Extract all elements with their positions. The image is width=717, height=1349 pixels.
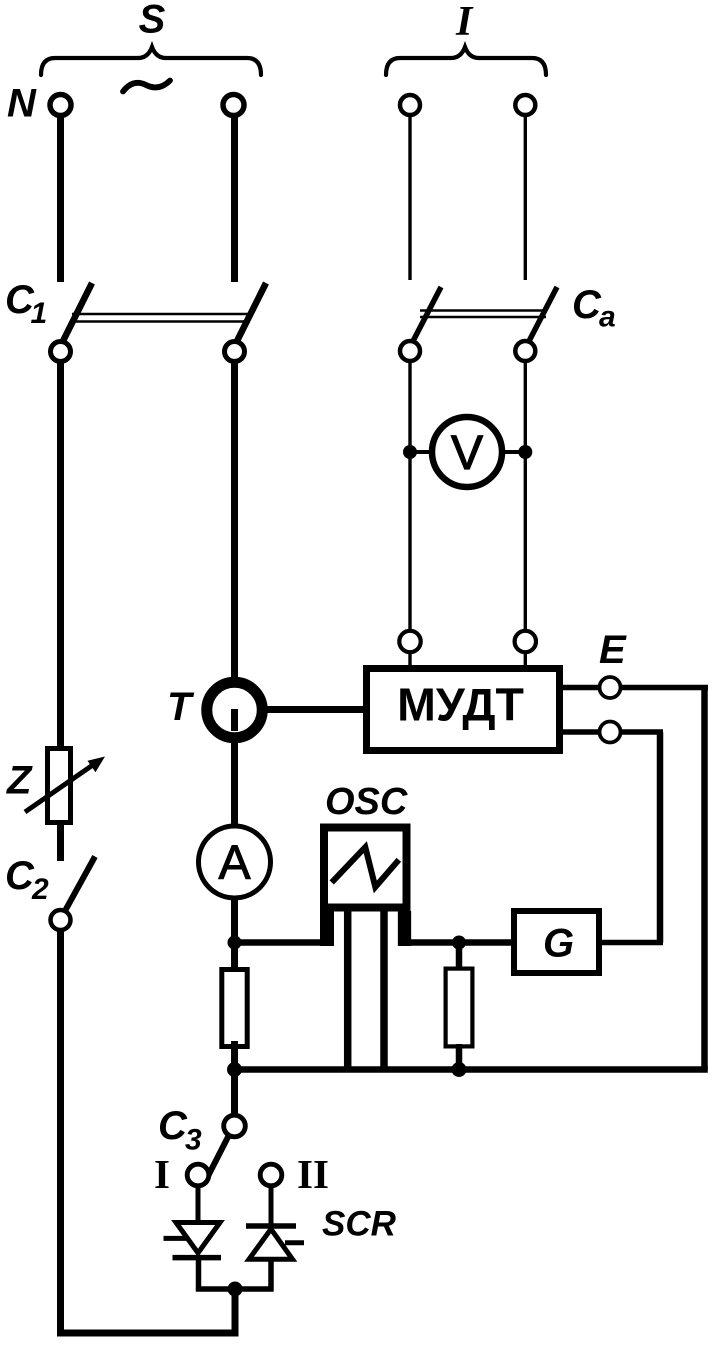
switch Ca right contact	[515, 341, 535, 361]
ammeter A	[199, 826, 271, 898]
svg-text:C: C	[572, 283, 602, 327]
brace I	[386, 47, 546, 75]
transformer T	[207, 682, 263, 738]
svg-text:2: 2	[31, 873, 49, 906]
wire bottom horizontal	[57, 1330, 238, 1337]
OSC pin1	[320, 911, 334, 946]
node R2 top	[452, 936, 466, 950]
svg-text:V: V	[451, 427, 483, 480]
wire OSC pin4 to G	[404, 939, 514, 946]
terminal S-left	[50, 95, 71, 116]
OSC pin4	[398, 911, 411, 946]
arrow through Z	[25, 764, 95, 813]
wire Z to C2	[57, 824, 64, 861]
terminal I-left	[400, 95, 420, 115]
wire G right	[602, 940, 663, 946]
wire I to SCR1	[196, 1185, 201, 1225]
wire C1-left to Z	[57, 361, 64, 748]
switch C3 contact	[224, 1115, 246, 1137]
resistor R2	[446, 969, 473, 1047]
block G	[514, 911, 599, 973]
wire SCR bottom connector	[196, 1286, 274, 1292]
svg-text:I: I	[455, 0, 474, 45]
svg-text:C: C	[5, 854, 35, 898]
svg-text:3: 3	[185, 1124, 202, 1157]
svg-text:1: 1	[31, 297, 48, 330]
terminal E2	[600, 722, 621, 743]
svg-text:OSC: OSC	[325, 781, 408, 823]
wire II to SCR2	[269, 1185, 274, 1228]
svg-text:G: G	[543, 922, 574, 966]
wire phase to C1	[231, 116, 238, 282]
thyristor SCR2	[246, 1223, 296, 1229]
wire MUDT to E1	[561, 685, 600, 691]
svg-text:II: II	[297, 1151, 329, 1197]
switch Ca linkage	[420, 309, 546, 312]
svg-text:I: I	[154, 1151, 170, 1197]
wire R2 bottom	[456, 1044, 463, 1070]
brace S	[41, 47, 261, 75]
wire R1 to C3	[231, 1041, 238, 1116]
switch Ca left contact	[400, 341, 420, 361]
wire Ca-right to MUDT	[524, 360, 527, 633]
node A-OSC junction	[228, 936, 242, 950]
switch C2 contact	[51, 910, 71, 930]
wire N to C1	[57, 116, 64, 282]
svg-text:S: S	[139, 0, 166, 42]
svg-text:Z: Z	[6, 759, 33, 803]
svg-text:a: a	[599, 301, 616, 334]
node R1 bottom	[227, 1062, 242, 1077]
svg-text:МУДТ: МУДТ	[397, 679, 524, 731]
node R2 bottom	[452, 1062, 467, 1077]
wire E1 right	[621, 685, 709, 691]
AC source tilde	[123, 81, 170, 92]
block OSC	[324, 828, 407, 908]
wire C1-right through T	[231, 361, 238, 826]
svg-text:N: N	[7, 82, 37, 126]
wire right vertical to bus	[701, 688, 708, 1070]
wire I-left to Ca	[408, 116, 411, 280]
switch C2 blade	[66, 857, 96, 911]
switch C1 left contact	[51, 342, 71, 362]
wire SCR1 down	[196, 1258, 202, 1292]
wire MUDT to E2	[561, 729, 600, 735]
terminal MUDT-left	[399, 631, 420, 652]
switch C1 linkage	[72, 313, 250, 316]
svg-text:SCR: SCR	[322, 1205, 397, 1244]
wire bottom bus	[231, 1066, 708, 1073]
wire R2 top	[456, 943, 463, 971]
switch Ca left blade	[411, 287, 441, 345]
OSC pin3	[380, 911, 388, 1073]
terminal I	[187, 1164, 209, 1186]
wire junction down	[232, 1289, 239, 1337]
svg-text:C: C	[158, 1104, 188, 1148]
wire A to R1	[231, 898, 238, 972]
switch C1 left blade	[62, 283, 93, 344]
svg-text:T: T	[167, 685, 195, 729]
switch C1 right contact	[225, 342, 245, 362]
wire junction to OSC pin1	[235, 939, 332, 946]
node V-right	[518, 445, 532, 459]
wire SCR2 down	[268, 1259, 274, 1292]
voltmeter V	[432, 417, 502, 487]
terminal MUDT-right	[515, 631, 536, 652]
node SCR junction	[228, 1282, 243, 1297]
switch Ca right blade	[527, 287, 557, 345]
svg-text:E: E	[599, 628, 627, 672]
wire Ca-left to MUDT	[408, 360, 411, 633]
terminal S-right	[223, 95, 244, 116]
wire E2 right	[621, 729, 664, 735]
wire I-right to Ca	[524, 116, 527, 280]
thyristor SCR1	[176, 1223, 220, 1254]
impedance Z	[48, 749, 71, 823]
node V-left	[403, 445, 417, 459]
wire C2 to bottom	[57, 930, 64, 1337]
wire E2 down to G	[657, 732, 664, 943]
wire V taps	[410, 450, 525, 454]
OSC pin2	[344, 911, 352, 1073]
switch C3 blade	[206, 1134, 230, 1180]
wire T to MUDT	[266, 706, 366, 713]
terminal II	[260, 1164, 282, 1186]
resistor R1	[222, 970, 247, 1047]
terminal I-right	[515, 95, 535, 115]
switch C1 right blade	[236, 283, 267, 344]
wire MUDT stubs	[408, 653, 411, 668]
svg-text:A: A	[218, 837, 250, 890]
terminal E1	[600, 677, 621, 698]
waveform in OSC	[332, 847, 399, 887]
block MUDT	[367, 669, 560, 751]
